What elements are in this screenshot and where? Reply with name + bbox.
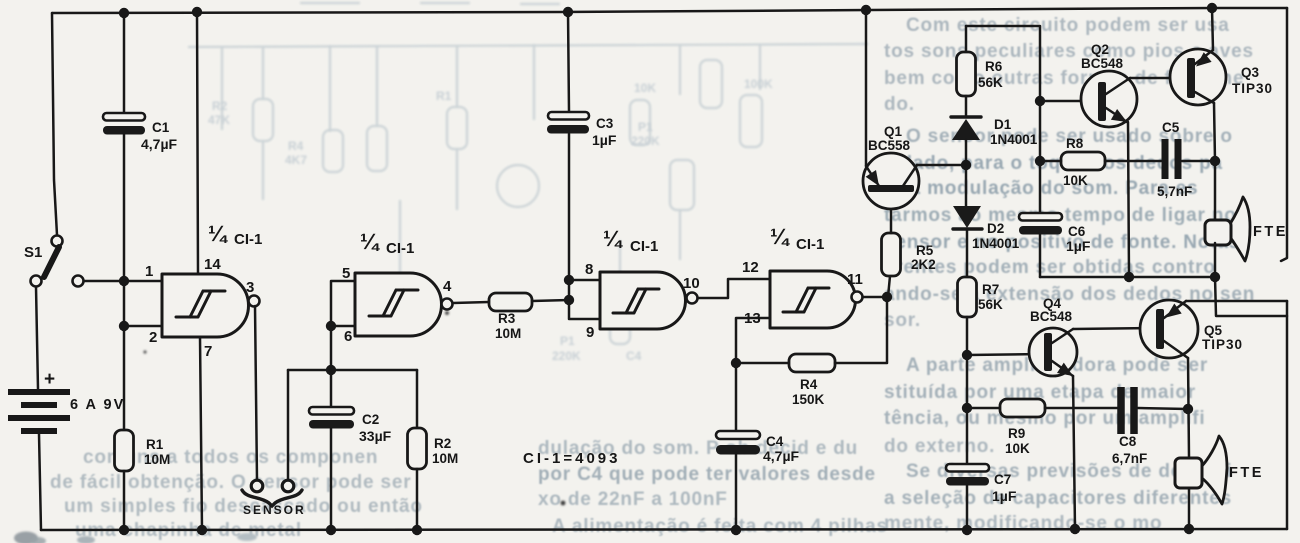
node R3 / gate3 (564, 295, 574, 305)
svg-text:4,7µF: 4,7µF (763, 448, 800, 464)
node Q1 rail (861, 5, 871, 15)
wire pin 14 supply (197, 12, 198, 274)
svg-text:D2: D2 (987, 221, 1004, 236)
wire bracket gate3 inputs (569, 280, 600, 319)
node top rail / C1 (119, 8, 129, 18)
svg-text:47K: 47K (208, 113, 230, 127)
svg-text:TIP30: TIP30 (1232, 81, 1273, 96)
wire link to R2 (416, 370, 419, 428)
svg-text:14: 14 (204, 256, 221, 273)
svg-text:R3: R3 (498, 311, 516, 326)
svg-text:2: 2 (149, 329, 157, 346)
ghost component labels (208, 77, 773, 363)
wire FTE1 node to right rail (1215, 277, 1287, 316)
svg-text:FTE: FTE (1229, 465, 1264, 481)
wire R6 to D1 (965, 96, 968, 117)
node FTE2 ground (1184, 524, 1194, 534)
wire C3 down to gate3 inputs (568, 134, 571, 280)
wire pin 7 to ground (200, 337, 202, 530)
wire bottom ground rail (41, 529, 1287, 530)
svg-text:P1: P1 (638, 120, 653, 134)
wire right edge rail upper (1281, 8, 1287, 261)
svg-text:C1: C1 (152, 120, 170, 135)
svg-text:BC548: BC548 (1081, 56, 1124, 71)
bottom-middle ghost text (538, 438, 888, 537)
svg-text:5: 5 (342, 265, 350, 282)
svg-text:sensor e no positivo de fonte.: sensor e no positivo de fonte. Notas (884, 232, 1240, 253)
wire R8 left stub (1040, 160, 1061, 163)
svg-text:de fácil obtenção. O sensor po: de fácil obtenção. O sensor pode ser (50, 472, 411, 493)
wire Q2 emitter down (1128, 122, 1129, 277)
svg-text:1µF: 1µF (592, 132, 617, 148)
wire C6 top (1039, 161, 1042, 214)
wire Q5 emitter to right rail (1186, 300, 1287, 303)
node R2 ground (412, 525, 422, 535)
node pin8 (564, 275, 574, 285)
node top rail / C3 (563, 7, 573, 17)
wire node up to R5 (888, 276, 890, 297)
wire Q4 base (967, 354, 1043, 355)
wire R9 left (967, 407, 1000, 410)
svg-text:1N4001: 1N4001 (990, 132, 1038, 147)
node Q2 base (1035, 96, 1045, 106)
svg-text:do.: do. (884, 94, 915, 115)
wire gate4 out to node (863, 296, 887, 299)
svg-text:C5: C5 (1162, 120, 1180, 135)
svg-text:10M: 10M (432, 451, 458, 466)
wire S1 to battery (36, 287, 38, 389)
wire Q2 base column down to R8 (1039, 101, 1042, 161)
svg-text:R6: R6 (985, 59, 1003, 74)
svg-text:4,7µF: 4,7µF (141, 136, 178, 152)
wire FTE2 to ground (1188, 488, 1191, 529)
capacitor C5 (1165, 139, 1178, 179)
wire C1 to input node (123, 134, 126, 281)
wire C6 bottom (1039, 234, 1042, 277)
svg-text:do externo.: do externo. (884, 436, 995, 457)
wire R8 to C5 (1105, 160, 1161, 163)
transistor Q4 BC548 (1029, 328, 1077, 376)
wire node to D2 (965, 165, 968, 206)
svg-text:+: + (44, 369, 55, 390)
svg-text:5,7nF: 5,7nF (1157, 184, 1192, 199)
svg-text:eclado, para o toque dos dedos: eclado, para o toque dos dedos pa (884, 153, 1223, 174)
svg-text:Q2: Q2 (1091, 42, 1109, 57)
wire D1 to node (965, 140, 968, 165)
svg-text:10K: 10K (634, 81, 656, 95)
wire R6 from top (965, 26, 968, 52)
svg-text:Com este circuito podem ser us: Com este circuito podem ser usa (906, 15, 1230, 36)
capacitor C1 (103, 113, 145, 135)
svg-text:10K: 10K (1063, 173, 1088, 188)
svg-text:R9: R9 (1008, 426, 1025, 441)
wire gate2 inputs bracket (331, 281, 355, 370)
svg-text:1: 1 (145, 263, 153, 280)
wire battery to ground rail (39, 434, 41, 530)
svg-text:¼: ¼ (770, 224, 790, 249)
wire gate2 out to R3 (453, 302, 489, 303)
svg-text:C8: C8 (1119, 434, 1137, 449)
svg-text:CI-1: CI-1 (796, 236, 824, 253)
node Q4 emitter ground (1070, 524, 1080, 534)
wire R9 to C8 (1045, 407, 1118, 410)
node C4 ground (731, 525, 741, 535)
wire C6 node link (1040, 276, 1215, 279)
svg-text:¼: ¼ (208, 221, 228, 246)
wire S1 to top rail (52, 13, 57, 235)
wire gate3 out to gate4 in (698, 279, 770, 298)
resistor R9 (1000, 399, 1045, 417)
svg-text:¼: ¼ (603, 226, 623, 251)
svg-text:CI-1=4093: CI-1=4093 (523, 450, 620, 467)
resistor R5 (882, 233, 901, 276)
svg-text:S1: S1 (24, 244, 42, 261)
svg-text:C3: C3 (596, 116, 614, 131)
wire R1 to ground rail (123, 471, 126, 530)
svg-text:10M: 10M (495, 326, 521, 341)
wire C1 node down to pin 2 (123, 281, 126, 326)
svg-text:11: 11 (847, 271, 863, 288)
nand gate U1A (162, 274, 260, 337)
capacitor C8 (1121, 387, 1134, 434)
svg-text:12: 12 (742, 259, 759, 276)
svg-text:1µF: 1µF (1066, 238, 1091, 254)
svg-text:R2: R2 (434, 436, 451, 451)
svg-text:220K: 220K (631, 134, 660, 148)
wire pin 2 stub (124, 325, 162, 328)
svg-text:6,7nF: 6,7nF (1112, 451, 1147, 466)
svg-text:R4: R4 (288, 139, 304, 153)
resistor R4 (789, 354, 835, 372)
wire C4 branch (735, 363, 738, 431)
wire node to C2 (330, 370, 333, 408)
svg-text:TIP30: TIP30 (1202, 337, 1243, 352)
node pin13 / R4 / C4 (731, 358, 741, 368)
wire speaker to emitter wire (1214, 243, 1217, 277)
svg-text:10: 10 (683, 275, 700, 292)
svg-text:C2: C2 (362, 412, 379, 427)
svg-text:56K: 56K (978, 297, 1003, 312)
wire C7 to ground (966, 485, 969, 530)
node R1 ground (119, 525, 129, 535)
svg-text:CI-1: CI-1 (386, 240, 414, 257)
capacitor C3 (547, 112, 589, 134)
node C2 ground (326, 525, 336, 535)
node gate4 output (882, 292, 892, 302)
resistor R8 (1061, 152, 1105, 170)
node pin7 ground (197, 525, 207, 535)
wire Q2 collector to Q3 base (1130, 77, 1187, 80)
wire input link gate2 (288, 369, 417, 372)
sensor terminal B (282, 480, 294, 492)
transistor Q1 BC558 (863, 153, 919, 209)
svg-text:C4: C4 (626, 349, 642, 363)
resistor R1 (115, 430, 134, 471)
svg-text:Q5: Q5 (1204, 323, 1223, 338)
svg-text:3: 3 (246, 279, 254, 296)
wire node down to R1 (123, 326, 126, 430)
svg-text:10M: 10M (144, 452, 170, 467)
resistor R7 (958, 277, 977, 317)
wire right edge rail lower (1286, 301, 1289, 529)
wire sensor B up to node wire (287, 370, 290, 480)
open terminal T1 (73, 276, 84, 287)
node Q2 emitter / C6 (1124, 272, 1134, 282)
svg-text:9: 9 (586, 324, 594, 341)
wire R3 to gate3 input node (532, 300, 569, 301)
right text column (884, 15, 1255, 534)
diode D1 1N4001 (951, 117, 981, 140)
svg-text:Q3: Q3 (1241, 65, 1260, 80)
svg-text:33µF: 33µF (359, 428, 392, 444)
speaker FTE2 (1175, 436, 1227, 504)
node C1 / pin1 (119, 276, 129, 286)
svg-text:C4: C4 (766, 434, 784, 449)
svg-text:4: 4 (443, 278, 452, 295)
svg-text:56K: 56K (978, 75, 1003, 90)
transistor Q2 BC548 (1081, 71, 1137, 127)
nand gate U1C (600, 272, 698, 329)
node C5 / FTE (1210, 156, 1220, 166)
svg-text:1µF: 1µF (992, 488, 1017, 504)
resistor R3 (489, 293, 532, 311)
svg-text:D1: D1 (994, 117, 1012, 132)
capacitor C2 (309, 407, 354, 429)
wire node to speaker (1214, 161, 1217, 219)
svg-text:CI-1: CI-1 (630, 238, 658, 255)
svg-text:mente, modificando-se o mo: mente, modificando-se o mo (884, 513, 1162, 534)
battery B1 6A9V (8, 392, 70, 431)
svg-text:220K: 220K (552, 349, 581, 363)
wire gate4 pin13 (736, 318, 770, 363)
svg-text:R2: R2 (212, 99, 228, 113)
svg-text:6: 6 (344, 328, 352, 345)
svg-text:10K: 10K (1005, 441, 1030, 456)
svg-text:por C4 que pode ter valores de: por C4 que pode ter valores desde (538, 464, 876, 485)
wire C2 to ground (330, 428, 333, 530)
svg-text:BC558: BC558 (868, 138, 911, 153)
svg-text:2K2: 2K2 (911, 257, 936, 272)
wire R5 to Q1 base (890, 194, 893, 233)
wire Q2 base (1040, 100, 1096, 103)
wire top supply rail (52, 8, 1287, 13)
svg-text:100K: 100K (744, 77, 773, 91)
svg-text:FTE: FTE (1253, 224, 1288, 240)
node gate2 inputs (326, 321, 336, 331)
smudges (14, 311, 565, 543)
svg-text:¼: ¼ (360, 229, 380, 254)
svg-text:C7: C7 (994, 472, 1011, 487)
node Q3 rail (1207, 3, 1217, 13)
transistor Q3 TIP30 (1170, 49, 1226, 105)
wire Q3 collector down (1214, 103, 1215, 161)
speaker FTE1 (1205, 197, 1250, 261)
label SENSOR brace (242, 490, 302, 506)
svg-text:R1: R1 (146, 437, 164, 452)
wire Q1 collector to diode node (917, 164, 966, 167)
svg-text:A alimentação é feita com 4 pi: A alimentação é feita com 4 pilhas (552, 516, 888, 537)
svg-text:C6: C6 (1068, 224, 1086, 239)
wire gate3 pin8 stub (569, 279, 600, 282)
svg-text:Q1: Q1 (884, 124, 903, 139)
wire C4 to ground (735, 454, 738, 530)
svg-text:13: 13 (744, 310, 761, 327)
node C7 ground (962, 525, 972, 535)
node pin2 (119, 321, 129, 331)
wire Q4 emitter to ground (1073, 376, 1075, 529)
wire gate1 output to sensor (255, 306, 257, 480)
wire R7 down to C7 (966, 317, 969, 465)
svg-text:8: 8 (585, 261, 593, 278)
svg-text:R4: R4 (800, 377, 818, 392)
wire C8 to Q5 collector (1138, 408, 1188, 409)
node C8 right (1183, 404, 1193, 414)
wire R4 to output node (835, 297, 887, 363)
svg-text:a seleção de capacitores difer: a seleção de capacitores diferentes (884, 488, 1232, 509)
svg-text:R1: R1 (436, 89, 452, 103)
svg-text:CI-1: CI-1 (234, 231, 262, 248)
svg-text:SENSOR: SENSOR (243, 503, 306, 517)
wire Q4 collector to Q5 base (1073, 328, 1156, 329)
node Q4 base branch (962, 350, 972, 360)
svg-text:R5: R5 (916, 243, 934, 258)
node link / C2 (326, 365, 336, 375)
svg-text:sor.: sor. (884, 310, 921, 331)
wire pin 6 stub (331, 325, 355, 328)
diode D2 1N4001 (953, 206, 982, 229)
transistor Q5 TIP30 (1140, 300, 1198, 358)
bottom-left ghost text (50, 447, 423, 541)
svg-text:R7: R7 (982, 282, 999, 297)
resistor R2 (408, 428, 427, 469)
wire C1 branch from top rail (123, 13, 126, 114)
switch S1 (31, 236, 63, 287)
wire node to R4 (736, 362, 789, 365)
svg-text:BC548: BC548 (1030, 309, 1073, 324)
wire C5 to Q3 collector node (1182, 160, 1215, 163)
svg-text:150K: 150K (792, 392, 825, 407)
svg-text:R8: R8 (1066, 136, 1084, 151)
node pin14 rail (192, 7, 202, 17)
wire terminal to gate pin 1 (84, 280, 162, 283)
wire D2 to R7 (966, 229, 969, 277)
node FTE1 bottom (1210, 272, 1220, 282)
wire C3 branch from top rail (568, 12, 569, 112)
svg-text:P1: P1 (560, 334, 575, 348)
sensor terminal A (251, 480, 263, 492)
wire Q1 emitter to top rail (865, 10, 868, 166)
capacitor C7 (946, 464, 989, 486)
svg-text:7: 7 (204, 343, 212, 360)
capacitor C6 (1019, 213, 1062, 235)
wire R2 to ground (416, 469, 419, 530)
svg-text:6 A 9V: 6 A 9V (70, 397, 125, 413)
wire Q5 collector down (1188, 358, 1189, 457)
nand gate U1B (355, 273, 453, 336)
node D1 D2 junction (961, 160, 971, 170)
svg-text:4K7: 4K7 (285, 153, 307, 167)
svg-text:1N4001: 1N4001 (972, 236, 1020, 251)
wire R6 bridge (966, 26, 1040, 101)
capacitor C4 (716, 431, 760, 455)
svg-text:xo de 22nF a 100nF: xo de 22nF a 100nF (538, 489, 728, 510)
resistor R6 (957, 52, 976, 96)
node R9 branch (962, 403, 972, 413)
ghost circuit bleed-through (188, 3, 868, 344)
nand gate U1D (770, 271, 863, 328)
wire Q3 emitter to rail (1212, 8, 1213, 50)
node R8 left (1035, 156, 1045, 166)
